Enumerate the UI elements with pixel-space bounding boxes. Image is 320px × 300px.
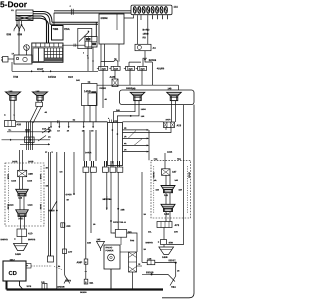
- svg-text:GR/GB: GR/GB: [80, 291, 87, 294]
- svg-text:4/5B: 4/5B: [66, 225, 71, 228]
- svg-text:52D2B: 52D2B: [146, 271, 154, 274]
- svg-text:4QB: 4QB: [101, 68, 106, 71]
- svg-text:24D: 24D: [128, 231, 132, 234]
- svg-text:GHSB: GHSB: [188, 172, 191, 178]
- svg-text:BNRYB: BNRYB: [28, 238, 36, 241]
- svg-text:16GR: 16GR: [165, 118, 171, 121]
- svg-text:CD: CD: [8, 270, 16, 277]
- svg-text:POWER: POWER: [105, 249, 113, 252]
- svg-text:A4D: A4D: [41, 281, 45, 284]
- svg-text:AAB: AAB: [109, 76, 115, 79]
- svg-text:4QR: 4QR: [114, 68, 119, 71]
- svg-text:14GB: 14GB: [39, 204, 42, 210]
- svg-text:16GR: 16GR: [141, 108, 147, 111]
- svg-text:7/48: 7/48: [13, 76, 19, 79]
- svg-text:7/6A: 7/6A: [64, 28, 70, 31]
- svg-text:41Q/5B: 41Q/5B: [157, 67, 165, 70]
- svg-text:15RD: 15RD: [142, 33, 148, 36]
- svg-text:52D06: 52D06: [149, 59, 157, 62]
- svg-text:GHSB: GHSB: [152, 172, 155, 178]
- svg-text:24B: 24B: [116, 109, 120, 112]
- svg-text:14R: 14R: [76, 79, 80, 82]
- svg-text:14GB: 14GB: [11, 180, 17, 183]
- svg-text:14SB: 14SB: [15, 253, 21, 256]
- svg-text:E09: E09: [17, 33, 22, 36]
- svg-text:BNGB: BNGB: [48, 209, 55, 212]
- svg-text:A3B: A3B: [28, 173, 33, 176]
- svg-text:14GB: 14GB: [8, 204, 14, 207]
- svg-text:A1D: A1D: [28, 232, 33, 235]
- svg-text:307B: 307B: [65, 280, 71, 283]
- svg-text:14GB: 14GB: [27, 180, 33, 183]
- svg-text:DA/DR: DA/DR: [85, 151, 92, 154]
- svg-text:14S: 14S: [18, 197, 22, 200]
- svg-text:GWGB 7/3B A4: GWGB 7/3B A4: [113, 221, 126, 224]
- svg-text:4/3B: 4/3B: [168, 241, 173, 244]
- svg-text:14GB: 14GB: [167, 151, 173, 154]
- svg-text:A4B: A4B: [147, 258, 152, 261]
- svg-text:2/30M: 2/30M: [100, 17, 107, 20]
- svg-text:9R/4B: 9R/4B: [104, 198, 110, 201]
- svg-text:14B: 14B: [167, 87, 171, 90]
- svg-text:4QB: 4QB: [128, 68, 133, 71]
- svg-text:GVGB: GVGB: [65, 193, 72, 196]
- svg-text:A23: A23: [176, 124, 181, 127]
- svg-text:A73: A73: [174, 224, 179, 227]
- svg-text:2: 2: [83, 52, 84, 55]
- svg-text:5-Door: 5-Door: [0, 0, 28, 9]
- svg-text:14B: 14B: [131, 87, 135, 90]
- svg-text:GH/GB: GH/GB: [57, 286, 65, 289]
- svg-text:A2B: A2B: [16, 123, 21, 126]
- svg-text:2/4B: 2/4B: [130, 239, 135, 242]
- svg-text:RD: RD: [142, 36, 146, 39]
- svg-text:E08: E08: [6, 33, 11, 36]
- svg-text:16/142: 16/142: [48, 76, 56, 79]
- svg-text:C4: C4: [26, 264, 28, 267]
- svg-text:A47: A47: [172, 171, 177, 174]
- svg-text:14GB: 14GB: [39, 174, 42, 180]
- svg-text:24B: 24B: [120, 209, 124, 212]
- svg-text:14GB: 14GB: [12, 160, 18, 163]
- svg-text:4QR: 4QR: [140, 68, 145, 71]
- svg-text:11A: 11A: [173, 6, 178, 9]
- svg-text:145B: 145B: [162, 256, 168, 259]
- svg-text:2/327: 2/327: [37, 68, 44, 71]
- svg-text:4/3B: 4/3B: [87, 242, 92, 245]
- svg-text:14S2: 14S2: [18, 217, 24, 220]
- svg-text:14GB: 14GB: [6, 174, 9, 180]
- svg-text:AMP: AMP: [76, 261, 82, 264]
- svg-text:D6/4: D6/4: [68, 76, 74, 79]
- svg-text:14GB: 14GB: [28, 160, 34, 163]
- svg-text:74Q: 74Q: [153, 158, 157, 161]
- svg-text:7: 7: [87, 55, 88, 58]
- svg-text:73Q: 73Q: [177, 158, 181, 161]
- svg-text:A77: A77: [68, 251, 73, 254]
- svg-text:52D27: 52D27: [168, 259, 176, 262]
- svg-text:14S2: 14S2: [164, 213, 170, 216]
- svg-text:RADIO: RADIO: [105, 246, 112, 249]
- svg-text:7/8A: 7/8A: [171, 286, 176, 289]
- svg-text:BNRYB: BNRYB: [145, 241, 153, 244]
- svg-text:BNRYB: BNRYB: [0, 238, 8, 241]
- svg-text:14GB: 14GB: [27, 204, 33, 207]
- svg-text:14S: 14S: [96, 238, 100, 241]
- svg-text:B+RD: B+RD: [142, 29, 149, 32]
- svg-text:7/6B: 7/6B: [52, 28, 58, 31]
- svg-text:14R: 14R: [174, 231, 178, 234]
